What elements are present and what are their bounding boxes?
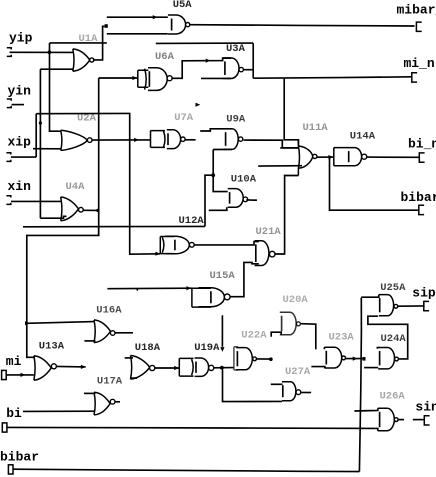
- bubble U1A: [90, 58, 94, 62]
- tie bracket U15A: [192, 288, 211, 307]
- svg-text:bibar: bibar: [401, 190, 436, 205]
- svg-text:U14A: U14A: [350, 131, 376, 143]
- svg-text:U12A: U12A: [179, 215, 205, 227]
- svg-text:U2A: U2A: [77, 112, 97, 124]
- tie bracket U14A: [334, 148, 348, 166]
- wire U17A.in1 stub: [84, 392, 96, 394]
- wire U1A.in2: [40, 68, 73, 70]
- bubble U2A: [87, 138, 92, 143]
- svg-text:U24A: U24A: [381, 333, 407, 345]
- wire U15A out to U21A: [230, 262, 258, 296]
- tie bracket U24A: [377, 347, 379, 349]
- nand-gate U5A: [168, 15, 186, 34]
- arrow U14A input: [328, 155, 333, 159]
- wire yip to U1A: [10, 51, 73, 53]
- junction dot U19A out: [220, 366, 224, 370]
- wire U5A.in1: [107, 16, 168, 18]
- tie bracket U6A: [138, 70, 149, 87]
- svg-text:U22A: U22A: [241, 330, 267, 342]
- or-gate U4A: [61, 197, 79, 221]
- port yip: [7, 48, 11, 57]
- port sin: [424, 416, 429, 425]
- wire U9A.in2: [213, 148, 232, 150]
- bubble U22A: [253, 357, 257, 361]
- wire U4A out: [83, 209, 98, 211]
- svg-text:U20A: U20A: [283, 294, 309, 306]
- svg-text:U3A: U3A: [226, 43, 246, 55]
- svg-text:U19A: U19A: [194, 342, 220, 354]
- wire U11A.in4: [285, 176, 299, 254]
- wire U20A.in2: [271, 332, 281, 337]
- svg-text:bibar: bibar: [0, 450, 39, 465]
- wire bi long: [7, 427, 375, 428]
- nand-gate U10A: [228, 189, 244, 208]
- bubble U27A: [296, 390, 301, 395]
- bubble U10A: [243, 197, 248, 202]
- bubble U17A: [110, 399, 115, 404]
- wire U26A out: [398, 419, 404, 421]
- svg-text:sin: sin: [415, 400, 436, 415]
- wire yip branch down to U2A: [50, 43, 61, 131]
- or-gate U17A: [94, 392, 110, 415]
- svg-text:xip: xip: [8, 135, 32, 150]
- wire U19A out: [214, 367, 234, 369]
- xnor-gate U12A: [162, 237, 164, 252]
- port bibar_n: [419, 205, 424, 214]
- wire U6A out riser: [172, 58, 231, 78]
- wire U26A.in2 stub: [375, 428, 378, 430]
- wire sin stub: [413, 419, 425, 421]
- wire U3A out: [244, 69, 254, 71]
- wire U3A.in2 segment: [201, 77, 231, 79]
- junction dot xp: [39, 121, 42, 124]
- wire U10A out: [246, 199, 257, 201]
- svg-text:U5A: U5A: [173, 0, 193, 11]
- wire U22A out: [257, 358, 271, 360]
- svg-text:xin: xin: [8, 179, 32, 194]
- bubble U16A: [110, 331, 115, 336]
- svg-text:sip: sip: [412, 286, 436, 301]
- wire box top long: [23, 225, 205, 227]
- wire U11A out: [317, 156, 334, 158]
- bubble U26A: [394, 418, 398, 422]
- wire xip stub: [11, 156, 36, 158]
- port yin: [7, 99, 11, 108]
- svg-text:U9A: U9A: [226, 114, 246, 126]
- wire U9A.in1: [200, 129, 232, 131]
- nand-gate U24A: [378, 348, 394, 369]
- bubble U25A: [394, 304, 398, 308]
- wire to U4A.in2: [40, 216, 66, 218]
- tie bracket U7A: [151, 131, 166, 148]
- port xin: [6, 196, 10, 205]
- or-gate U2A: [61, 130, 88, 150]
- nand-gate U14A: [348, 148, 362, 166]
- svg-text:U7A: U7A: [174, 112, 194, 124]
- port xip: [6, 153, 10, 162]
- nand-gate U23A: [324, 347, 341, 368]
- wire U17A out: [115, 401, 120, 403]
- svg-text:mi_n: mi_n: [404, 56, 435, 71]
- bubble U9A: [238, 137, 242, 141]
- wire U2A out: [92, 139, 150, 141]
- bubble U12A: [189, 242, 194, 247]
- nand-gate U26A: [378, 408, 395, 430]
- arrow U24A input: [353, 357, 358, 361]
- or-gate U16A: [94, 320, 111, 343]
- wire U27A out: [301, 392, 311, 394]
- bubble U13A: [51, 364, 56, 369]
- port mi: [2, 370, 7, 379]
- svg-text:yin: yin: [8, 84, 32, 99]
- bubble U21A: [269, 251, 275, 257]
- svg-text:U21A: U21A: [256, 226, 282, 238]
- wire xin to U4A: [11, 200, 61, 202]
- svg-text:U10A: U10A: [231, 174, 257, 186]
- wire junction to box: [205, 175, 213, 226]
- wire bibar long: [13, 469, 359, 471]
- wire U23A.in2: [311, 367, 325, 368]
- wire xip riser: [35, 114, 37, 157]
- svg-text:U25A: U25A: [380, 282, 406, 294]
- wire bibar riser: [359, 298, 361, 472]
- nand-gate U22A: [236, 348, 252, 370]
- wire U24A.in2: [364, 367, 378, 369]
- arrow on U5A.in1: [153, 15, 158, 19]
- arrow U6A input: [132, 76, 137, 80]
- tie bracket U22A: [234, 347, 238, 370]
- wire U13A out: [57, 365, 86, 368]
- arrow U15A input: [186, 286, 191, 290]
- bubble U6A: [167, 76, 172, 81]
- bubble U3A: [239, 67, 243, 71]
- stray arrow: [196, 103, 201, 107]
- bubble U24A: [395, 357, 399, 361]
- wire U21A out up: [275, 253, 284, 255]
- wire U16A.in2: [84, 340, 95, 342]
- bubble U23A: [342, 356, 346, 360]
- arrow U7A input: [134, 138, 139, 142]
- wire U10A.in2: [209, 207, 227, 210]
- port bi_n: [419, 153, 424, 162]
- svg-text:U4A: U4A: [66, 181, 86, 193]
- wire U7A out: [185, 139, 195, 141]
- svg-text:U15A: U15A: [210, 270, 236, 282]
- wire U1A output riser: [93, 26, 105, 60]
- wire U16A out: [115, 332, 133, 334]
- arrow mi: [21, 373, 26, 377]
- junction on yip wire: [48, 50, 52, 54]
- wire mid junction net: [213, 150, 228, 192]
- bubble U18A: [150, 365, 155, 370]
- svg-text:yip: yip: [9, 31, 33, 46]
- or-gate U1A: [73, 49, 90, 71]
- junction square top: [105, 24, 108, 28]
- wire U14A out to bi_n: [367, 156, 419, 158]
- arrow U13A out: [81, 365, 86, 369]
- wire xip cross link: [33, 148, 61, 150]
- wire U18A.in2 stub: [131, 377, 137, 379]
- svg-text:U17A: U17A: [97, 376, 123, 388]
- svg-text:U23A: U23A: [329, 331, 355, 343]
- port bi: [2, 423, 7, 432]
- svg-text:U11A: U11A: [303, 122, 329, 134]
- or-gate U18A: [131, 356, 150, 380]
- nand-gate U9A: [224, 129, 239, 150]
- bubble U14A: [362, 154, 367, 159]
- svg-text:mi: mi: [6, 354, 22, 369]
- junction arrow U16A: [25, 321, 30, 325]
- wire U11A.in3: [258, 165, 302, 167]
- wire U20A out: [301, 324, 316, 350]
- wire dangling vertical: [221, 315, 223, 347]
- bubble U11A: [313, 154, 317, 158]
- arrow down: [220, 347, 224, 352]
- wire U5A.in2: [107, 33, 168, 35]
- bubble U20A: [296, 322, 300, 326]
- wire U5A out to mibar: [190, 25, 415, 26]
- junction dot U22A out: [269, 357, 273, 361]
- wire U18A out: [155, 367, 179, 369]
- svg-text:U27A: U27A: [285, 366, 311, 378]
- port mi_n: [412, 73, 417, 82]
- wire U25A out to sip: [398, 305, 425, 307]
- wire net y43 left segment: [50, 42, 107, 44]
- wire bi to U17A: [23, 410, 95, 412]
- port bibar: [8, 465, 13, 474]
- svg-text:bi: bi: [6, 406, 22, 421]
- wire into U6A: [99, 77, 137, 79]
- wire long vertical left: [98, 78, 100, 235]
- arrow U12A input: [155, 252, 160, 256]
- wire U11A.in2 step: [280, 147, 298, 149]
- xnor-gate U7A: [163, 131, 165, 148]
- bubble U15A: [224, 294, 230, 300]
- wire to U16A.in1: [27, 322, 94, 324]
- wire U12A out: [194, 242, 258, 245]
- nand-gate U20A: [280, 312, 296, 335]
- wire mi_n horizontal: [253, 77, 411, 78]
- arrow U19A input: [174, 366, 179, 370]
- wire U24A feedback: [368, 316, 408, 359]
- bubble U19A: [209, 365, 214, 370]
- nand-gate U15A: [199, 288, 225, 307]
- svg-text:U26A: U26A: [380, 391, 406, 403]
- arrow on U3A.in1: [206, 59, 211, 63]
- wire vertical xp net: [39, 69, 41, 218]
- wire U26A.in1: [354, 408, 377, 411]
- nand-gate U3A: [223, 58, 239, 79]
- port sip: [424, 301, 429, 310]
- svg-text:bi_n: bi_n: [408, 136, 436, 151]
- wire U11A.in1 from mi_n net: [284, 78, 298, 145]
- wire mi to U13A: [6, 374, 34, 376]
- blob on wire: [363, 357, 366, 361]
- svg-text:U18A: U18A: [135, 342, 161, 354]
- svg-text:U6A: U6A: [155, 51, 175, 63]
- xnor-gate U6A: [145, 69, 147, 90]
- nand-gate U27A: [282, 382, 296, 401]
- tick on wire: [136, 289, 138, 291]
- nor-gate U11A: [298, 140, 312, 176]
- svg-text:mibar_: mibar_: [397, 3, 436, 18]
- bubble U7A: [181, 137, 185, 141]
- junction U4A out: [96, 209, 99, 212]
- or-gate U13A: [34, 356, 51, 381]
- wire yin stub: [12, 104, 25, 106]
- wire box left link: [27, 227, 99, 358]
- bubble U4A: [79, 207, 84, 212]
- wire net y43 right segment: [156, 42, 253, 44]
- svg-text:U13A: U13A: [39, 341, 65, 353]
- bubble U5A: [186, 23, 190, 27]
- junction dot mid: [211, 173, 215, 177]
- wire U19A out down: [223, 370, 282, 402]
- xnor-gate U19A: [192, 359, 194, 375]
- wire U25A input: [361, 295, 379, 298]
- tie bracket U12A: [160, 237, 174, 254]
- svg-text:U1A: U1A: [79, 33, 99, 45]
- port mibar: [416, 22, 421, 31]
- wire mi_n vertical: [252, 43, 254, 78]
- wire to U15A: [107, 287, 191, 290]
- nand-gate U25A: [379, 295, 394, 316]
- nand-gate U21A: [255, 241, 269, 266]
- wire U18A.in1 stub: [125, 357, 133, 359]
- svg-text:U16A: U16A: [96, 305, 122, 317]
- wire to bibar_n: [330, 157, 419, 210]
- wire U27A.in1 stub: [271, 383, 283, 385]
- wire U23A.in1 stub: [323, 347, 325, 349]
- wire xip to box: [36, 113, 160, 254]
- tie bracket U19A: [179, 358, 193, 376]
- wire U9A out: [244, 140, 299, 148]
- wire U23A out: [346, 358, 365, 360]
